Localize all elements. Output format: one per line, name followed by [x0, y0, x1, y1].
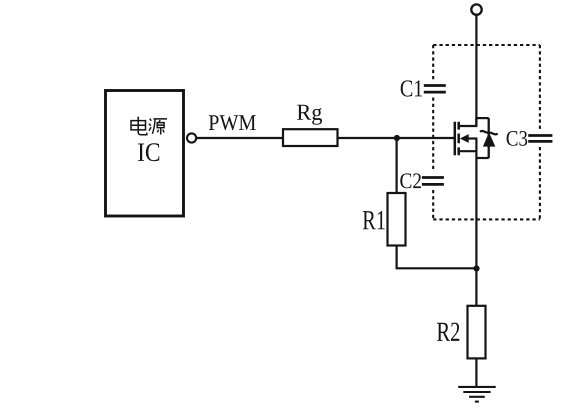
R2 label	[437, 323, 459, 341]
drain tick	[459, 125, 478, 127]
resistor Rg	[283, 129, 338, 146]
body diode D1	[488, 118, 490, 158]
source tick	[459, 150, 478, 152]
wire node A down to R1	[396, 138, 398, 193]
channel segments	[457, 122, 460, 156]
body arrow	[466, 137, 477, 139]
wire top terminal to MOSFET drain	[475, 15, 477, 126]
power IC box U1	[106, 91, 184, 217]
wire PWM: IC terminal to Rg	[196, 137, 283, 139]
capacitor C2	[422, 178, 444, 185]
drain internal vertical	[475, 117, 477, 126]
ground	[458, 387, 496, 402]
capacitor C3	[528, 136, 552, 142]
C2 label	[400, 173, 421, 188]
IC label	[138, 143, 159, 161]
C3 label	[507, 131, 528, 146]
C1 label	[401, 80, 422, 96]
dashed enclosure box	[433, 45, 540, 219]
node B junction dot	[473, 265, 479, 271]
PWM label	[209, 115, 256, 130]
transistor Q1 (N-MOSFET)	[455, 122, 459, 156]
output terminal of IC	[187, 133, 196, 142]
top terminal	[471, 4, 481, 14]
capacitor C1	[424, 86, 446, 93]
电源 label (hanzi: dian)	[131, 117, 147, 135]
wire Rg to gate	[338, 137, 455, 139]
gate bar	[454, 122, 457, 156]
node A junction dot	[394, 135, 400, 141]
resistor R2	[468, 306, 486, 359]
wire R1 bottom to node B	[397, 246, 477, 269]
Rg label	[297, 105, 322, 125]
body diode branch top	[476, 117, 488, 119]
source/body internal vertical	[475, 139, 477, 306]
R1 label	[363, 211, 385, 229]
源 label (hanzi: yuan)	[149, 119, 167, 135]
diode cathode curve	[480, 131, 498, 134]
wire R2 to ground	[475, 358, 477, 387]
body diode branch bottom	[476, 157, 488, 159]
resistor R1	[388, 193, 406, 246]
